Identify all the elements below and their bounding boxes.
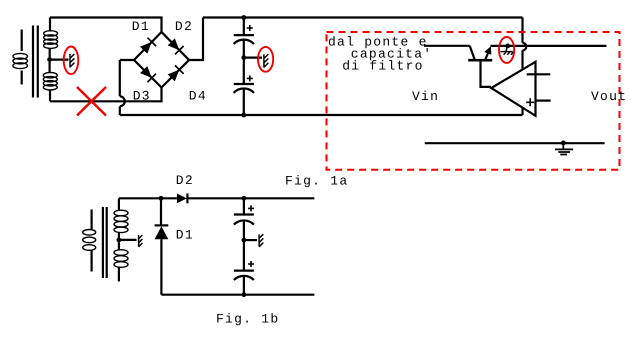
svg-text:di filtro: di filtro (342, 58, 424, 73)
transformer T1 primary stub top (21, 30, 23, 52)
capacitor C2 curved plate (234, 89, 254, 93)
wire transformer bottom to bridge bottom corner (50, 88, 162, 102)
diode D3 (bridge bottom-left) (140, 66, 156, 82)
diode D1 fig1b triangle (155, 226, 169, 239)
svg-text:D1: D1 (176, 228, 194, 243)
wire bridge right corner to plus rail (189, 18, 203, 61)
wire C1 to midpoint (243, 40, 245, 58)
wire bridge left corner down to ground rail (120, 60, 134, 96)
fig1b C1 plus polarity mark (248, 205, 254, 211)
wire fig1b C1 to midpoint (243, 220, 245, 240)
wire secondary to center tap T2 (118, 232, 120, 238)
wire T2 center tap to chassis symbol (119, 239, 137, 241)
capacitor fig1b C1 curved plate (234, 220, 254, 224)
diode D1 fig1b anode lead (160, 198, 162, 225)
transformer T1 primary winding (13, 53, 28, 68)
C1 plus polarity mark (247, 25, 253, 31)
svg-text:D3: D3 (133, 88, 151, 103)
transistor Q1 emitter with arrow (484, 46, 491, 60)
op-amp U1 non-inverting input lead (536, 99, 551, 101)
wire midpoint to C2 (243, 58, 245, 84)
node C2 ground junction (241, 113, 246, 118)
node fig1b capacitor bottom junction (242, 292, 247, 297)
node center tap junction (47, 57, 52, 62)
transistor Q1 base bar (468, 59, 492, 62)
diode D1 fig1b cathode bar (155, 224, 169, 226)
op-amp U1 minus marking and inverting input lead (527, 73, 551, 75)
transformer T2 secondary top lead (118, 198, 120, 210)
diode D1 (bridge top-left) (140, 38, 156, 54)
svg-text:D1: D1 (132, 19, 150, 34)
wire drop to op-amp top edge (521, 50, 523, 69)
wire center tap to lower winding (48, 62, 50, 73)
svg-text:D4: D4 (189, 88, 207, 103)
fig1b C2 plus polarity mark (248, 261, 254, 267)
wire T2 lower winding stub (118, 267, 120, 281)
transformer T1 primary stub bottom (21, 71, 23, 85)
svg-text:D2: D2 (176, 173, 194, 188)
transformer T1 secondary lower winding (43, 73, 57, 91)
capacitor fig1b C2 curved plate (234, 276, 254, 280)
wire plus rail drop into regulator (521, 18, 523, 43)
node T2 center tap junction (117, 238, 122, 243)
transformer T1 core (33, 26, 38, 98)
transformer T2 primary stub bottom (90, 250, 92, 271)
wire hop over output wire (523, 43, 527, 51)
wire C2 to ground rail (243, 89, 245, 115)
node fig1b D1 junction (159, 196, 164, 201)
red circle mark around center tap ground (64, 47, 79, 75)
wire fig1b top rail right (187, 197, 314, 199)
C2 plus polarity mark (247, 75, 253, 81)
earth ground symbol (555, 143, 573, 155)
diode D2 (bridge top-right) (168, 38, 184, 54)
op-amp U1 triangle (491, 62, 535, 116)
dashed red annotation box (327, 32, 620, 170)
transistor Q1 base lead to op-amp output (481, 60, 492, 87)
transformer T2 primary winding (83, 230, 96, 251)
wire hop over transformer wire (120, 96, 125, 106)
bridge diamond edges (134, 32, 189, 88)
svg-text:Fig. 1a: Fig. 1a (285, 174, 348, 189)
red circle mark around output ground (499, 37, 514, 63)
svg-text:D2: D2 (175, 19, 193, 34)
wire lower ground return line (425, 142, 605, 144)
chassis ground symbol at capacitor midpoint (264, 54, 268, 67)
wire fig1b bottom rail (161, 294, 314, 296)
svg-text:Fig. 1b: Fig. 1b (216, 311, 279, 326)
diode D4 (bridge bottom-right) (168, 65, 184, 81)
transformer T2 secondary upper winding (114, 210, 128, 232)
wire collector lead from bridge text (424, 45, 470, 47)
wire top rail left (secondary top to bridge top corner) (50, 18, 162, 33)
chassis ground symbol at center tap (70, 54, 74, 68)
wire output (emitter to Vout) (490, 45, 606, 47)
wire op-amp bottom to ground rail (521, 108, 523, 115)
wire center tap to chassis symbol (50, 58, 69, 60)
red X deletion mark on wire (77, 87, 106, 116)
node fig1b capacitor midpoint (242, 238, 247, 243)
capacitor fig1b C1 plate (234, 213, 254, 215)
transistor Q1 collector diagonal (470, 46, 475, 60)
capacitor fig1b C2 plate (234, 270, 254, 272)
capacitor C1 plate (234, 34, 254, 36)
op-amp U1 plus marking (526, 98, 534, 106)
wire secondary to center tap (49, 48, 51, 57)
wire lower winding to bottom (49, 90, 51, 101)
chassis ground symbol at output node (500, 47, 513, 55)
wire ground rail (120, 114, 523, 116)
transformer T2 primary stub top (90, 210, 92, 230)
wire plus rail top right (203, 16, 523, 18)
transformer T2 core (103, 207, 107, 278)
node capacitor midpoint (241, 55, 246, 60)
node ground line junction (561, 141, 566, 146)
chassis ground symbol at fig1b midpoint (259, 234, 263, 247)
node fig1b capacitor top junction (242, 196, 247, 201)
wire T2 center tap to lower winding (118, 242, 120, 250)
svg-text:Vout: Vout (591, 89, 627, 104)
diode D2 fig1b (177, 194, 188, 204)
transformer T1 secondary top lead (49, 18, 51, 32)
node plus rail / capacitor junction (241, 15, 246, 20)
wire fig1b C2 to bottom rail (243, 276, 245, 295)
wire fig1b midpoint to C2 (243, 240, 245, 271)
capacitor C1 curved plate (234, 40, 254, 44)
wire midpoint to chassis symbol (244, 56, 262, 58)
capacitor C2 plate (234, 83, 254, 85)
wire plus rail to C1 (243, 18, 245, 36)
wire fig1b C1 top lead (243, 198, 245, 214)
svg-text:Vin: Vin (412, 89, 439, 104)
transformer T2 secondary lower winding (114, 250, 128, 268)
node output junction (505, 44, 510, 49)
wire fig1b top rail (119, 197, 177, 199)
chassis ground symbol at T2 center tap (139, 235, 143, 247)
wire fig1b midpoint to chassis symbol (244, 239, 257, 241)
diode D1 fig1b lead to bottom rail (160, 239, 162, 295)
transformer T1 secondary upper winding (44, 31, 58, 49)
red circle mark around capacitor midpoint ground (258, 47, 273, 72)
wire hop continue to ground rail (119, 106, 121, 115)
